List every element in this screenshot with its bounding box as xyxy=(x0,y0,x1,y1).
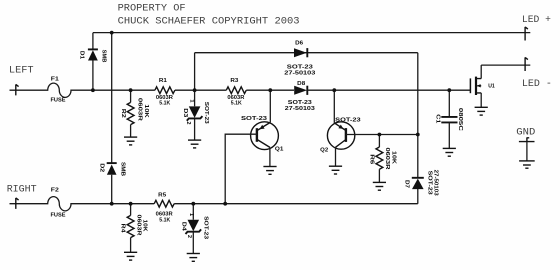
wire RIGHT channel with fuse body F2 xyxy=(10,197,155,211)
wire D4 branch from RIGHT channel xyxy=(192,204,194,220)
port terminal LED- xyxy=(525,57,528,71)
svg-text:GND: GND xyxy=(516,126,535,138)
diode D3 zener body xyxy=(189,106,201,118)
resistor R4 vertical body and leads xyxy=(130,204,132,216)
wire D3 to ground xyxy=(194,118,196,139)
junction dot Q2 base / D6-D7 branch xyxy=(416,133,420,137)
resistor R6 lead to ground xyxy=(378,169,380,182)
svg-text:PROPERTY OF: PROPERTY OF xyxy=(118,2,186,14)
svg-text:C1: C1 xyxy=(434,114,440,123)
transistor Q1 base wire from RIGHT channel xyxy=(225,134,257,204)
svg-text:D7: D7 xyxy=(404,180,410,188)
mosfet U1 drain wire to LED- xyxy=(480,65,482,79)
junction dot LEFT / Q2 emitter xyxy=(332,88,336,92)
svg-text:SOT-23: SOT-23 xyxy=(335,117,361,123)
svg-text:R3: R3 xyxy=(230,78,238,84)
resistor R5 body xyxy=(154,200,174,207)
transistor Q1 emitter wire to LEFT channel xyxy=(269,90,271,122)
svg-text:D1: D1 xyxy=(79,51,85,59)
diode D8 body xyxy=(294,86,307,95)
ground below R2 xyxy=(124,137,137,145)
svg-text:SOT-23: SOT-23 xyxy=(203,102,209,124)
diode D1 body xyxy=(88,50,98,60)
diode D2 body xyxy=(107,165,117,175)
svg-text:Q2: Q2 xyxy=(320,147,328,153)
wire D1 branch vertical xyxy=(92,33,94,91)
mosfet U1 source wire to ground xyxy=(480,93,482,107)
svg-text:1: 1 xyxy=(188,213,194,216)
ground below R4 xyxy=(124,252,137,260)
svg-text:F1: F1 xyxy=(51,77,59,83)
svg-text:Q1: Q1 xyxy=(275,147,284,153)
svg-text:LED +: LED + xyxy=(522,14,551,26)
svg-text:D2: D2 xyxy=(99,163,105,172)
junction dot RIGHT / Q1 base xyxy=(223,202,227,206)
transistor Q2 base wire to D6-D7 branch xyxy=(346,134,418,136)
resistor R6 body xyxy=(376,147,383,169)
junction dot LEFT / R2 xyxy=(129,88,133,92)
resistor R3 body xyxy=(226,87,246,94)
svg-text:27-50103: 27-50103 xyxy=(285,106,315,112)
junction dot Q2 base / R6 xyxy=(378,133,382,137)
wire D3 branch from D6 link through LEFT channel xyxy=(194,53,196,107)
port terminal RIGHT input xyxy=(16,198,19,209)
wire LEFT channel from D8 to U1 gate xyxy=(307,89,470,91)
port terminal LED+ xyxy=(525,27,528,41)
svg-text:27-50103: 27-50103 xyxy=(433,170,439,196)
transistor Q1 xyxy=(251,122,279,150)
svg-text:0603R: 0603R xyxy=(135,215,141,236)
svg-text:SMB: SMB xyxy=(120,162,126,176)
wire D6 top link xyxy=(195,52,418,54)
svg-text:2: 2 xyxy=(185,121,191,124)
svg-text:D3: D3 xyxy=(182,108,188,117)
svg-text:LED -: LED - xyxy=(522,78,552,90)
diode D4 zener body xyxy=(188,220,200,232)
svg-text:R4: R4 xyxy=(119,224,125,234)
wire top rail xyxy=(93,32,530,34)
svg-text:5.1K: 5.1K xyxy=(159,217,170,223)
junction dot RIGHT / D4 xyxy=(191,202,195,206)
svg-text:R5: R5 xyxy=(158,193,166,199)
svg-text:10K: 10K xyxy=(390,151,396,164)
svg-text:FUSE: FUSE xyxy=(51,212,66,218)
svg-text:0805C: 0805C xyxy=(457,108,463,131)
svg-text:5.1K: 5.1K xyxy=(159,101,170,107)
svg-text:FUSE: FUSE xyxy=(51,98,66,104)
svg-text:R2: R2 xyxy=(120,109,126,118)
ground below D3 xyxy=(188,140,201,148)
svg-text:SOT-23: SOT-23 xyxy=(241,116,267,122)
resistor R1 body xyxy=(155,87,175,94)
wire D6-D7 branch vertical xyxy=(417,53,419,204)
svg-text:D4: D4 xyxy=(181,222,187,232)
svg-text:0603R: 0603R xyxy=(137,98,143,121)
wire LEFT channel with fuse body F1 xyxy=(10,83,155,97)
svg-text:CHUCK SCHAEFER COPYRIGHT 2003: CHUCK SCHAEFER COPYRIGHT 2003 xyxy=(118,15,300,27)
svg-text:SMB: SMB xyxy=(100,50,106,63)
resistor R6 lead from Q2 base line xyxy=(378,135,380,148)
wire GND stub xyxy=(526,142,528,161)
junction dot LEFT / D1 xyxy=(91,88,95,92)
svg-text:10K: 10K xyxy=(142,220,148,232)
ground below R6 xyxy=(373,182,386,190)
wire D4 to ground xyxy=(192,232,194,254)
svg-text:27-50103: 27-50103 xyxy=(284,71,315,77)
ground symbol GND xyxy=(519,161,535,168)
resistor R2 vertical body and leads xyxy=(130,90,132,102)
svg-text:LEFT: LEFT xyxy=(9,64,34,76)
junction dot LEFT / C1 xyxy=(447,88,451,92)
wire LEFT channel between R3 and D8 xyxy=(246,89,294,91)
diode D6 body xyxy=(294,48,307,57)
svg-text:2: 2 xyxy=(186,235,192,238)
capacitor C1 lead from LEFT channel xyxy=(448,90,450,116)
port terminal GND xyxy=(519,137,535,141)
ground below U1 xyxy=(475,107,488,115)
transistor Q2 xyxy=(327,122,354,149)
wire LEFT channel between R1 and R3 xyxy=(175,89,226,91)
ground below Q1 xyxy=(263,167,276,175)
svg-text:10K: 10K xyxy=(143,104,149,118)
svg-text:R1: R1 xyxy=(159,78,167,84)
transistor Q2 emitter wire to LEFT channel xyxy=(333,90,335,123)
svg-text:0603R: 0603R xyxy=(384,148,390,170)
svg-text:SOT-23: SOT-23 xyxy=(203,216,209,239)
capacitor C1 plates xyxy=(441,117,457,123)
wire RIGHT channel from R5 to D7 corner xyxy=(174,203,418,205)
ground below D4 xyxy=(187,254,200,262)
svg-text:D8: D8 xyxy=(297,81,305,87)
junction dot LEFT / D3 D6 xyxy=(193,88,197,92)
wire LED- xyxy=(481,64,530,66)
junction dot RIGHT / R4 xyxy=(129,202,133,206)
port terminal LEFT input xyxy=(16,84,19,95)
mosfet U1 xyxy=(470,77,481,95)
junction dot LEFT / Q1 emitter xyxy=(268,88,272,92)
diode D7 body xyxy=(412,179,424,190)
svg-text:D6: D6 xyxy=(295,40,303,46)
junction dot RIGHT / D2 xyxy=(110,202,114,206)
svg-text:R6: R6 xyxy=(369,154,375,164)
svg-text:F2: F2 xyxy=(51,187,59,193)
svg-text:RIGHT: RIGHT xyxy=(7,184,37,196)
transistor Q2 collector wire to ground xyxy=(335,147,337,166)
svg-text:U1: U1 xyxy=(488,83,495,89)
svg-text:1: 1 xyxy=(188,99,194,102)
ground below C1 xyxy=(443,148,456,156)
svg-text:5.1K: 5.1K xyxy=(231,101,242,107)
transistor Q1 collector wire to ground xyxy=(269,147,271,166)
svg-text:SOT-23: SOT-23 xyxy=(427,171,433,195)
capacitor C1 lead to ground xyxy=(448,122,450,148)
wire D2 branch vertical from top rail to RIGHT channel xyxy=(111,33,113,204)
junction dot top rail / D2 xyxy=(110,31,114,35)
ground below Q2 xyxy=(329,166,342,174)
